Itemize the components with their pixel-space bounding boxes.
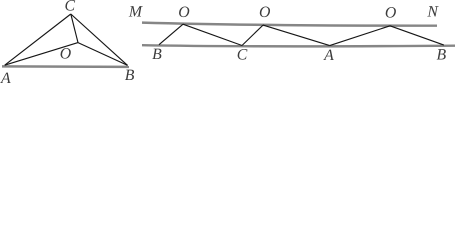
svg-text:O: O [259, 4, 271, 21]
wire segment O1-C [183, 24, 242, 45]
wire cevian OA [5, 43, 78, 66]
svg-text:C: C [65, 0, 76, 14]
svg-text:B: B [152, 46, 162, 63]
wire side CB [71, 14, 128, 65]
svg-text:O: O [60, 46, 72, 63]
svg-text:N: N [426, 4, 439, 21]
wire segment A-O3 [330, 26, 390, 46]
wire segment O3-B [390, 26, 444, 45]
wire side AC [5, 14, 71, 65]
wire segment C-O2 [242, 25, 263, 45]
wire segment B-O1 [159, 24, 183, 45]
svg-text:C: C [237, 47, 248, 64]
wire top line MN (gray) [142, 23, 437, 26]
wire segment O2-A [263, 25, 330, 45]
svg-text:A: A [0, 70, 11, 87]
svg-text:M: M [128, 4, 143, 21]
wire cevian OC [71, 14, 78, 43]
svg-text:O: O [178, 4, 190, 21]
wire cevian OB [78, 43, 128, 66]
svg-text:O: O [385, 5, 397, 22]
wire bottom line (gray) [142, 45, 455, 46]
svg-text:B: B [436, 47, 446, 64]
wire baseline AB (gray) [2, 65, 129, 68]
svg-text:A: A [323, 47, 334, 64]
svg-text:B: B [125, 67, 135, 84]
